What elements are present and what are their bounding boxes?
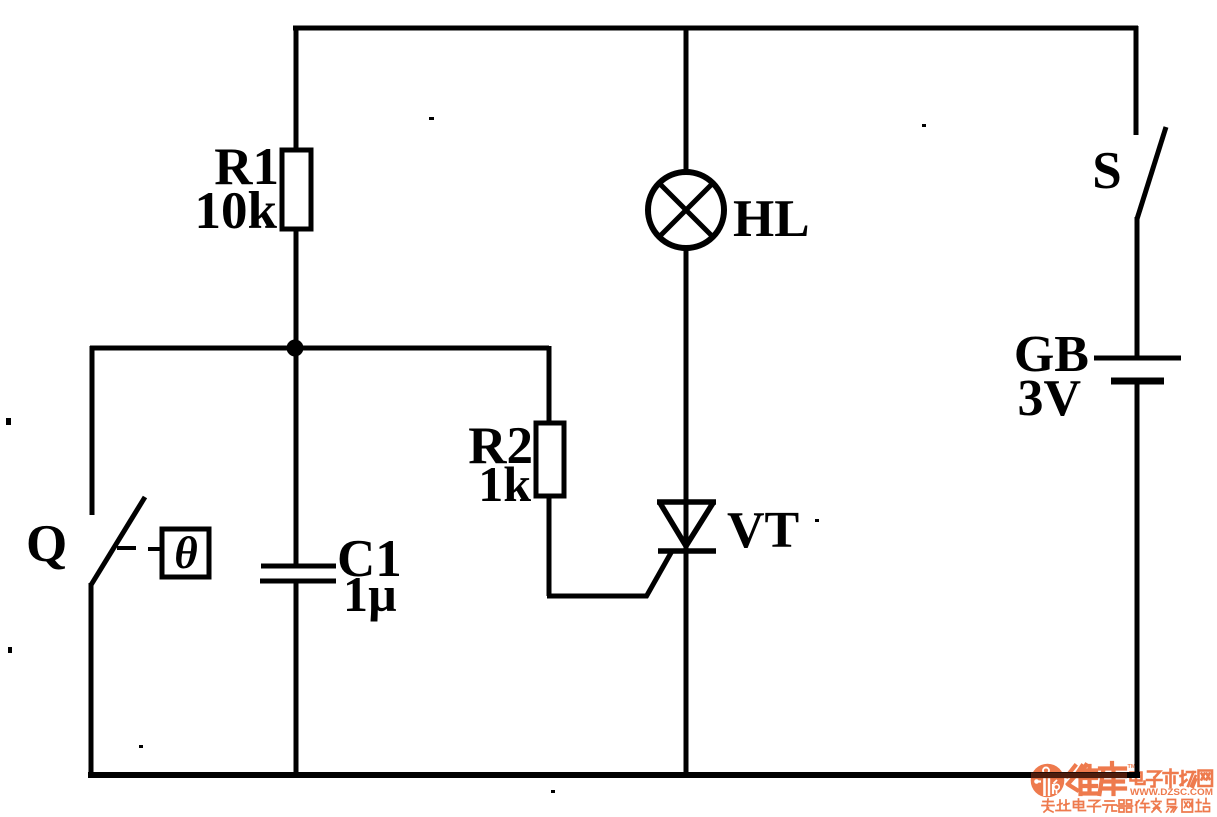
wire S bottom lead [1135,217,1140,358]
fake SHI [1164,770,1178,788]
wire C1 top lead [294,348,299,566]
fake WANG [1199,771,1213,787]
fake WANG [1182,800,1193,813]
fake YI [1167,800,1177,813]
wire S top lead [1134,26,1139,135]
wire bottom horizontal bus [88,772,1140,778]
capacitor C1 top plate [261,564,336,569]
svg-text:WWW.DZSC.COM: WWW.DZSC.COM [1130,787,1213,797]
fake JIAO [1152,799,1162,813]
fake ZI [1147,772,1162,787]
resistor R1 [282,150,311,229]
wire left branch vertical [90,346,95,515]
wire R1 bottom lead [294,229,299,350]
battery GB positive plate [1094,356,1181,361]
fake QI [1118,800,1133,812]
watermark weiku logo group [1031,763,1213,812]
thermal actuator theta box [162,529,209,577]
wire tint where watermark crosses bottom bus [1031,773,1127,779]
lamp HL [648,172,724,248]
switch Q arm [91,497,145,585]
label weiku (fake hanzi) [1067,763,1125,794]
wire GB bottom lead [1135,384,1140,778]
svg-text:3V: 3V [1017,370,1081,427]
resistor R2 [536,423,564,496]
wire Q bottom lead [89,583,94,777]
label slogan (fake hanzi) [1042,799,1210,813]
wire HL bottom lead [684,245,689,777]
wire R2 bottom lead [547,496,552,596]
wire junction horizontal [90,346,549,351]
svg-text:1µ: 1µ [343,566,397,622]
fake ZHAN [1196,799,1210,812]
scan noise specks [6,117,926,793]
logo circle [1031,764,1065,798]
capacitor C1 bottom plate [260,579,336,584]
lamp HL cross [659,183,713,237]
fake YUAN [1103,801,1117,812]
fake DIAN [1074,799,1086,811]
svg-text:Q: Q [26,515,67,573]
wire C1 bottom lead [294,581,299,777]
battery GB negative plate [1111,378,1164,385]
fake ZHUAN [1042,799,1054,812]
fake YE [1056,800,1071,811]
thyristor VT cathode bar [658,548,716,554]
label dianzishichangwang (fake hanzi) [1131,770,1213,788]
fake CHANG [1181,771,1197,787]
svg-text:HL: HL [733,190,810,248]
svg-text:TM: TM [1128,764,1136,770]
switch Q tick [117,546,136,550]
wire top horizontal bus [293,26,1138,31]
wire R2 top lead [547,346,552,423]
logo circuit traces [1035,768,1059,797]
svg-text:1k: 1k [478,456,531,512]
wire gate horizontal [547,594,648,599]
thyristor VT triangle [657,502,716,546]
fake JIAN [1136,799,1150,812]
fake KU [1100,763,1126,794]
fake DIAN [1131,770,1145,784]
svg-text:θ: θ [174,528,197,578]
svg-text:VT: VT [727,502,799,559]
node junction dot [287,340,304,357]
wire R1 top lead [294,26,299,152]
svg-text:10k: 10k [195,182,278,240]
switch S arm [1137,127,1166,219]
wire dash to theta box [148,547,161,551]
svg-text:S: S [1092,142,1121,200]
wire gate diagonal [646,551,672,597]
fake WEI [1067,766,1077,790]
fake ZI [1088,801,1101,813]
wire HL top lead [684,26,689,176]
